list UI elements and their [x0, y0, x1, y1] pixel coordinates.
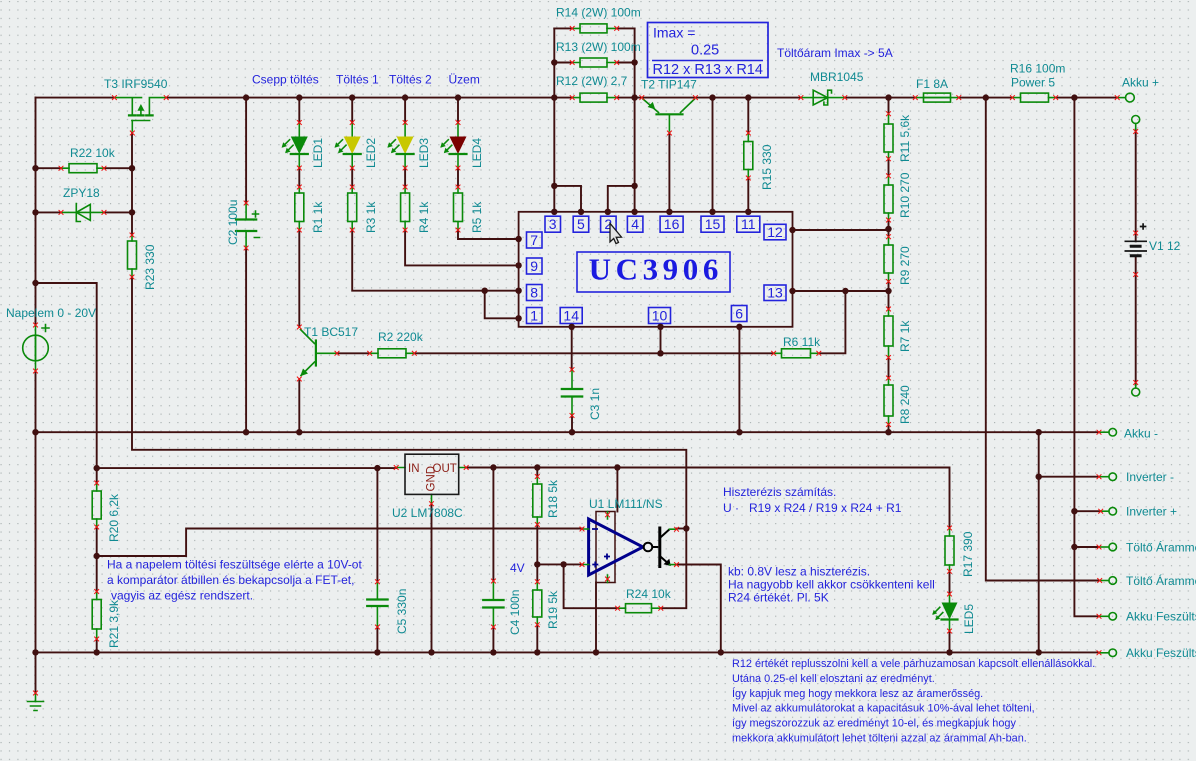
wire: vertical Akku- to bottom rail	[1038, 432, 1040, 653]
wire: comparator emitter drop to bottom rail	[677, 565, 721, 653]
formula box Imax	[648, 23, 769, 78]
resistor R14 (2W) 100m	[570, 24, 619, 33]
wire: R15 top stub	[747, 98, 749, 133]
transistor T1 BC517 NPN	[297, 325, 340, 382]
svg-text:R16 100m: R16 100m	[1010, 62, 1065, 76]
svg-text:R23 330: R23 330	[143, 244, 157, 290]
pin 16	[660, 216, 683, 232]
wire: R19 top stub	[536, 564, 538, 581]
resistor R15 330	[744, 131, 753, 181]
wire: top supply rail MBR1045 to F1	[845, 97, 916, 99]
wire: C3 bottom to mid rail	[571, 416, 573, 433]
wire: vertical from top rail to Tolto Arammero 2 row	[986, 98, 1100, 581]
svg-text:IN: IN	[408, 463, 420, 475]
pin 11	[737, 216, 760, 232]
wire: R22 left lead stub	[36, 167, 62, 169]
wire: ladder branch to pin 5	[554, 186, 581, 212]
wire: LED2 column top	[351, 98, 353, 123]
wire: minus input line from R20/R21 node with step	[97, 529, 582, 557]
svg-text:Mivel az akkumulátorokat a kap: Mivel az akkumulátorokat a kapacitásuk 1…	[732, 703, 1035, 715]
wire: ladder branch to pin 2	[608, 186, 635, 212]
LED LED5 green	[932, 592, 957, 634]
wire: pin 12 row to divider chain	[793, 229, 889, 231]
pin 9	[527, 258, 543, 274]
wire: C5 top	[376, 468, 378, 582]
transistor T2 TIP147 PNP darlington	[639, 95, 697, 135]
terminal Akku Feszultseg 1	[1097, 613, 1117, 621]
wire: C2 column bottom	[245, 248, 247, 432]
svg-text:Töltés 2: Töltés 2	[389, 73, 432, 87]
svg-text:vagyis az egész rendszert.: vagyis az egész rendszert.	[111, 589, 253, 603]
LED LED3 yellow	[387, 120, 413, 170]
pin 8	[527, 285, 543, 301]
fuse F1 8A	[913, 93, 961, 102]
wire: R17 to LED5	[949, 571, 951, 594]
svg-text:LED5: LED5	[962, 604, 976, 634]
svg-text:9: 9	[530, 258, 538, 274]
svg-text:Akku Feszültség: Akku Feszültség	[1126, 646, 1196, 660]
svg-text:R12 (2W) 2,7: R12 (2W) 2,7	[556, 74, 628, 88]
pin 13	[764, 285, 786, 301]
resistor R10 270	[884, 173, 893, 222]
svg-text:10: 10	[652, 308, 668, 324]
wire: Tolto Arammero 1 row	[1074, 546, 1099, 548]
svg-text:13: 13	[767, 285, 783, 301]
wire: LED4 column top	[457, 98, 459, 123]
svg-text:11: 11	[741, 216, 756, 232]
wire: U1 power drop from OUT rail	[616, 468, 618, 512]
svg-text:1: 1	[530, 308, 538, 324]
svg-text:F1 8A: F1 8A	[916, 77, 948, 91]
wire: R13 row right stub	[617, 62, 635, 64]
svg-text:Hiszterézis számítás.: Hiszterézis számítás.	[723, 485, 836, 499]
svg-text:R24 10k: R24 10k	[626, 587, 672, 601]
svg-text:GND: GND	[426, 466, 438, 492]
wire: branch pin 8 node down to pin 1	[485, 291, 519, 319]
svg-text:14: 14	[563, 308, 579, 324]
svg-text:T2 TIP147: T2 TIP147	[641, 78, 697, 92]
wire: battery bottom	[1135, 256, 1137, 385]
svg-text:R11 5,6k: R11 5,6k	[898, 114, 912, 162]
pin 14	[560, 308, 582, 324]
resistor R5 1k	[454, 185, 463, 233]
svg-text:Csepp töltés: Csepp töltés	[252, 73, 319, 87]
svg-text:R19 5k: R19 5k	[546, 590, 560, 629]
wire: U1 ground drop to bottom rail	[595, 583, 597, 653]
svg-text:R1 1k: R1 1k	[311, 201, 325, 233]
resistor R21 3,9k	[92, 589, 101, 641]
svg-text:Napelem 0 - 20V: Napelem 0 - 20V	[6, 306, 96, 320]
svg-text:12: 12	[767, 224, 783, 240]
svg-text:R7 1k: R7 1k	[898, 320, 912, 352]
svg-text:Akku -: Akku -	[1124, 427, 1158, 441]
svg-text:V1 12: V1 12	[1149, 239, 1181, 253]
svg-text:R21 3,9k: R21 3,9k	[107, 599, 121, 648]
wire: LED3 column top	[404, 98, 406, 123]
op-amp comparator U1 LM111/NS	[580, 512, 679, 583]
svg-text:R3 1k: R3 1k	[364, 201, 378, 233]
wire: R15 bottom to pin 11	[747, 178, 749, 212]
svg-text:Így kapjuk meg hogy mekkora le: Így kapjuk meg hogy mekkora lesz az áram…	[732, 687, 983, 700]
svg-text:0.25: 0.25	[691, 43, 719, 59]
terminal Tolto Arammero 1	[1097, 543, 1117, 551]
svg-text:Akku +: Akku +	[1122, 76, 1159, 90]
svg-text:R24 értékét. Pl. 5K: R24 értékét. Pl. 5K	[728, 591, 829, 605]
svg-text:Töltő Árammérő: Töltő Árammérő	[1126, 540, 1196, 555]
wire: C4 bottom	[492, 627, 494, 652]
svg-text:MBR1045: MBR1045	[810, 70, 864, 84]
svg-text:C4 100n: C4 100n	[508, 590, 522, 635]
svg-text:Üzem: Üzem	[449, 73, 480, 87]
wire: vertical from top rail to Akku Feszultseg 1 row	[1074, 98, 1099, 617]
voltage source Napelem 0-20V solar input	[23, 323, 49, 374]
capacitor C3 1n	[562, 367, 582, 418]
wire: T2 base down to pin 16	[668, 133, 670, 212]
junction dots: UC3906 pins	[482, 209, 892, 357]
svg-text:a komparátor átbillen és bekap: a komparátor átbillen és bekapcsolja a F…	[107, 573, 354, 587]
wire: comparator collector stub	[677, 528, 687, 530]
svg-text:R22 10k: R22 10k	[70, 146, 116, 160]
wire: R1 down to T1 collector	[298, 230, 300, 327]
wire: plus input row to comparator	[537, 563, 582, 565]
svg-text:Inverter -: Inverter -	[1126, 470, 1174, 484]
wire: R14 row left stub	[554, 27, 572, 29]
svg-text:T3 IRF9540: T3 IRF9540	[104, 77, 168, 91]
wire: left vertical bus Napelem to bottom rail	[35, 371, 37, 652]
capacitor C4 100n	[483, 579, 503, 630]
wire: R14 ladder left vertical	[553, 28, 555, 211]
wire: R22 right lead stub	[104, 167, 132, 169]
svg-text:LED1: LED1	[311, 138, 325, 168]
wire: branch from plus row down to R24 left	[564, 564, 618, 608]
svg-text:Akku Feszültség: Akku Feszültség	[1126, 610, 1196, 624]
svg-text:4: 4	[631, 216, 639, 232]
IC U1 UC3906 body	[519, 212, 793, 327]
wire: ZPY18 left lead stub	[36, 211, 62, 213]
svg-text:R12 értékét replusszolni kell: R12 értékét replusszolni kell a vele pár…	[732, 658, 1095, 670]
junction dots: mid rail	[32, 429, 1042, 435]
pin 12	[764, 224, 786, 240]
resistor R24 10k	[615, 604, 663, 613]
wire: pin 10 stub down	[660, 327, 662, 354]
terminal Akku Feszultseg 2	[1097, 649, 1117, 657]
wire: battery top	[1135, 130, 1137, 242]
svg-text:5: 5	[577, 216, 585, 232]
svg-text:16: 16	[664, 216, 680, 232]
diode MBR1045 schottky	[799, 90, 848, 105]
svg-text:Töltő Árammérő: Töltő Árammérő	[1126, 573, 1196, 588]
svg-text:ZPY18: ZPY18	[63, 186, 100, 200]
wire: LED2 to R3	[351, 168, 353, 187]
wire: LED1 column top	[298, 98, 300, 123]
resistor R22 10k	[59, 164, 107, 173]
resistor R23 330	[128, 233, 137, 280]
wire: R19 bottom to bottom rail	[536, 625, 538, 653]
wire: C2 column top	[245, 98, 247, 203]
svg-text:U1 LM111/NS: U1 LM111/NS	[589, 497, 663, 511]
mouse cursor	[610, 223, 622, 243]
svg-text:Imax =: Imax =	[653, 25, 695, 41]
svg-text:3: 3	[549, 216, 557, 232]
svg-text:Ha nagyobb kell akkor csökkent: Ha nagyobb kell akkor csökkenteni kell	[728, 578, 935, 592]
svg-text:T1 BC517: T1 BC517	[304, 325, 358, 339]
pin 7	[527, 232, 543, 248]
ground symbol	[28, 691, 44, 711]
wire: R20 bottom to step node	[96, 527, 98, 556]
svg-text:UC3906: UC3906	[589, 252, 723, 287]
resistor R16 100m Power 5	[1010, 93, 1058, 102]
wire: R18 bottom to plus row	[536, 525, 538, 565]
resistor R1 1k	[295, 185, 304, 233]
wire: top supply rail R12 to MBR1045	[617, 97, 801, 99]
svg-text:Inverter +: Inverter +	[1126, 505, 1177, 519]
svg-text:C5 330n: C5 330n	[395, 589, 409, 634]
pin 2	[601, 216, 617, 232]
wire: pin 14 down to C3	[571, 327, 573, 370]
pin 1	[527, 308, 543, 324]
wire: C5 bottom	[376, 627, 378, 652]
wire: pin 6 down to mid rail	[738, 327, 740, 432]
svg-text:R10 270: R10 270	[898, 172, 912, 218]
resistor R2 220k	[367, 349, 416, 358]
svg-text:Töltés 1: Töltés 1	[336, 73, 379, 87]
svg-text:U · R19 x R24 / R19 x R24 +: U · R19 x R24 / R19 x R24 + R1	[723, 501, 902, 515]
wire: mid rail (Akku-) across schematic	[36, 431, 1100, 433]
svg-text:R14 (2W) 100m: R14 (2W) 100m	[556, 6, 641, 20]
resistor R11 5,6k	[884, 111, 893, 161]
resistor R19 5k	[533, 579, 542, 627]
svg-text:Power 5: Power 5	[1011, 76, 1055, 90]
wire: U2 GND down to bottom rail	[431, 504, 433, 653]
battery V1 12	[1125, 116, 1148, 397]
svg-text:7: 7	[530, 232, 538, 248]
svg-text:LED4: LED4	[470, 138, 484, 168]
transistor T3 IRF9540 P-MOSFET	[112, 95, 169, 135]
wire: ZPY18 right lead stub	[104, 211, 132, 213]
svg-text:R9 270: R9 270	[898, 246, 912, 285]
svg-text:R20 6,2k: R20 6,2k	[107, 493, 121, 542]
svg-text:Ha a napelem töltési feszültsé: Ha a napelem töltési feszültsége elérte …	[107, 558, 362, 572]
wire: T3 gate down to R22/ZPY18 column	[131, 133, 133, 235]
wire: R2 right to R6 left (through pin 10 node)	[414, 352, 773, 354]
svg-text:Utána 0.25-el kell elosztani a: Utána 0.25-el kell elosztani az eredmény…	[732, 673, 935, 685]
wire: left vertical bus to ground	[35, 652, 37, 693]
junction dots: lower section	[32, 464, 1077, 655]
wire: R4 down and right to pin 9	[405, 230, 518, 265]
resistor R18 5k	[533, 474, 542, 527]
svg-text:mekkora akkumulátort lehet töl: mekkora akkumulátort lehet tölteni azzal…	[732, 733, 1027, 745]
svg-text:R17 390: R17 390	[961, 531, 975, 577]
svg-text:U2 LM7808C: U2 LM7808C	[392, 506, 463, 520]
wire: pin 15 up to top rail	[712, 98, 714, 212]
pin 10	[649, 308, 671, 324]
wire: Inverter- row	[1039, 476, 1099, 478]
LED LED4 dark red	[440, 120, 466, 170]
terminal Akku -	[1097, 428, 1117, 436]
wire: top supply rail F1 to R16	[959, 97, 1013, 99]
wire: Inverter+ row	[1074, 510, 1100, 512]
svg-text:R13 (2W) 100m: R13 (2W) 100m	[556, 40, 641, 54]
svg-text:15: 15	[705, 216, 721, 232]
svg-text:8: 8	[530, 285, 538, 301]
wire: LED4 to R5	[457, 168, 459, 187]
wire: R23 bottom down then right to collector drop, down to R24	[132, 277, 686, 608]
wire: R3 down and right to pin 8	[352, 230, 518, 291]
wire: R13 row left stub	[554, 62, 572, 64]
wire: bottom rail (Akku Feszultseg 2) across schematic	[36, 651, 1100, 653]
svg-text:C3 1n: C3 1n	[588, 388, 602, 420]
wire: R21 bottom to bottom rail	[96, 639, 98, 652]
wire: branch from left bus to R20 column	[36, 283, 97, 468]
svg-text:R12 x R13 x R14: R12 x R13 x R14	[653, 62, 763, 78]
wire: R20 top stub	[96, 468, 98, 483]
wire: R14 ladder right vertical	[634, 28, 636, 211]
resistor R6 11k	[771, 349, 821, 358]
svg-text:R2 220k: R2 220k	[378, 330, 424, 344]
wire: R5 down and right to pin 7	[458, 230, 519, 239]
svg-text:C2 100u: C2 100u	[226, 200, 240, 245]
svg-text:LED3: LED3	[417, 138, 431, 168]
pin 6	[731, 306, 747, 322]
LED LED1 green	[282, 120, 308, 170]
wire: R18 top stub	[536, 468, 538, 477]
wire: T1 base to R2	[337, 352, 370, 354]
resistor R8 240	[884, 376, 893, 427]
wire: R6 right lead up to pin 13 row	[819, 291, 846, 353]
svg-text:R18 5k: R18 5k	[546, 479, 560, 518]
wire: top supply rail left of T3	[36, 97, 115, 99]
pin 3	[545, 216, 561, 232]
resistor R17 390	[945, 526, 954, 574]
resistor R7 1k	[884, 307, 893, 360]
wire: top supply rail R16 to Akku+ terminal	[1056, 97, 1118, 99]
capacitor C5 330n	[367, 579, 387, 629]
terminal Akku +	[1115, 93, 1135, 102]
regulator U2 LM7808C	[394, 454, 469, 506]
wire: top supply rail T3 to R12 ladder	[166, 97, 572, 99]
resistor R13 (2W) 100m	[570, 58, 619, 67]
wire: R14 row right stub	[617, 27, 635, 29]
zener diode ZPY18	[59, 204, 107, 222]
LED LED2 yellow	[335, 120, 361, 170]
wire: pin 13 row to divider chain	[793, 290, 889, 292]
wire: left vertical bus from top rail down to Napelem	[35, 98, 37, 325]
svg-text:kb: 0.8V lesz a hiszterézis.: kb: 0.8V lesz a hiszterézis.	[728, 565, 870, 579]
wire: LED5 to bottom rail	[949, 631, 951, 652]
pin 4	[627, 216, 643, 232]
terminal Inverter +	[1098, 507, 1116, 515]
capacitor C2 100u electrolytic	[236, 201, 260, 251]
svg-text:4V: 4V	[510, 561, 525, 575]
svg-text:Töltőáram Imax -> 5A: Töltőáram Imax -> 5A	[777, 46, 893, 60]
svg-text:LED2: LED2	[364, 138, 378, 168]
pin 15	[701, 216, 724, 232]
junction dots: top rail	[243, 94, 1078, 100]
resistor R3 1k	[348, 185, 357, 233]
wire: IN rail from R20 node to U2	[97, 467, 397, 469]
terminal Inverter -	[1097, 473, 1117, 481]
svg-text:6: 6	[735, 306, 743, 322]
wire: divider chain stubs x=888.5	[888, 98, 890, 433]
svg-text:R15 330: R15 330	[760, 144, 774, 190]
resistor R20 6,2k	[92, 481, 101, 530]
wire: LED3 to R4	[404, 168, 406, 187]
junction dots: ladder and left section	[32, 59, 638, 286]
resistor R9 270	[884, 234, 893, 284]
wire: LED1 to R1	[298, 168, 300, 187]
pin 5	[573, 216, 589, 232]
wire: step node to R21	[96, 556, 98, 592]
svg-text:R8 240: R8 240	[898, 385, 912, 424]
resistor R12 (2W) 2,7	[570, 93, 619, 102]
resistor R4 1k	[401, 185, 410, 233]
svg-text:R6 11k: R6 11k	[783, 335, 821, 349]
wire: T1 emitter down to mid rail	[298, 379, 300, 432]
svg-text:R4 1k: R4 1k	[417, 201, 431, 233]
svg-text:R5 1k: R5 1k	[470, 201, 484, 233]
svg-text:így megszorozzuk az eredményt: így megszorozzuk az eredményt 10-el, és …	[732, 718, 1016, 730]
wire: U2 OUT rail to R17 column	[466, 468, 949, 529]
wire: C4 top	[492, 468, 494, 582]
terminal Tolto Arammero 2	[1097, 577, 1116, 585]
